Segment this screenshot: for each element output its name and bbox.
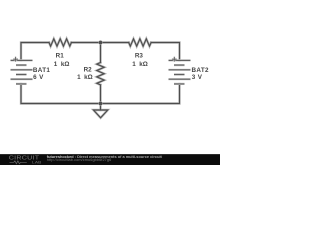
svg-text:1 kΩ: 1 kΩ — [132, 61, 148, 68]
svg-text:http://circuitlab.com/cmu6gbb6: http://circuitlab.com/cmu6gbb6f27g6 — [47, 158, 112, 162]
svg-text:1 kΩ: 1 kΩ — [54, 61, 70, 68]
svg-text:BAT2: BAT2 — [192, 67, 210, 74]
logo waveform squiggle — [10, 161, 27, 164]
junction node B — [98, 101, 102, 105]
svg-text:R1: R1 — [56, 52, 65, 59]
svg-text:R2: R2 — [84, 67, 93, 74]
junction node A — [98, 40, 102, 44]
BAT2 plus sign — [172, 57, 177, 62]
svg-text:R3: R3 — [135, 52, 144, 59]
battery plates halo pass — [11, 60, 191, 84]
svg-text:1 kΩ: 1 kΩ — [77, 74, 93, 81]
CircuitLab logo wordmark — [9, 155, 42, 164]
svg-text:BAT1: BAT1 — [33, 67, 51, 74]
schematic wiring core pass — [21, 39, 180, 118]
schematic wiring halo pass — [21, 39, 180, 118]
svg-text:LAB: LAB — [32, 160, 42, 164]
svg-text:6 V: 6 V — [33, 74, 44, 81]
BAT1 plus sign — [13, 57, 18, 62]
battery plates core pass — [11, 60, 191, 84]
svg-text:3 V: 3 V — [192, 74, 203, 81]
footer bar — [0, 154, 220, 165]
